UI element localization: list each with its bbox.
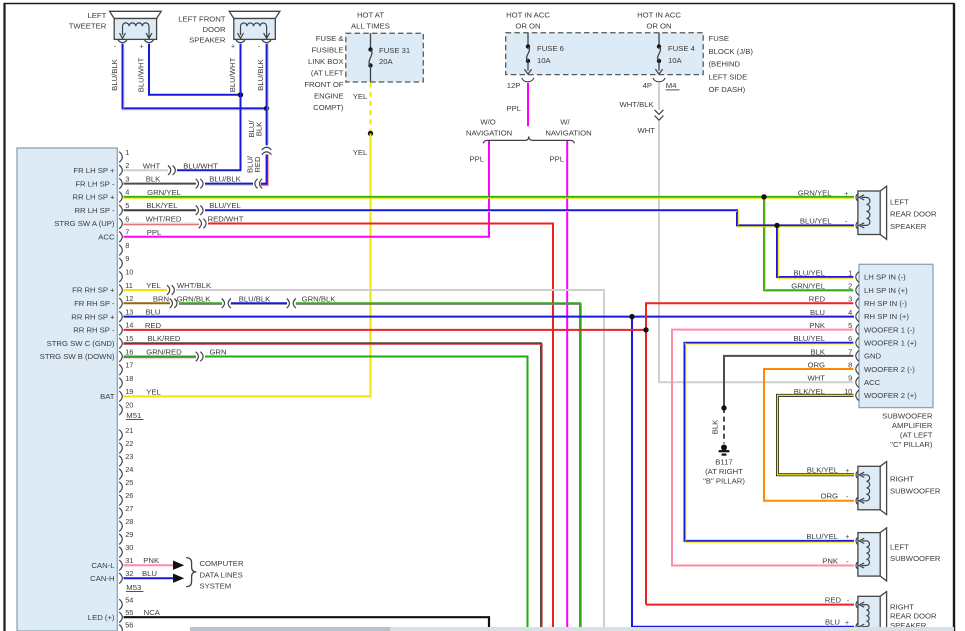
svg-text:RED/WHT: RED/WHT [208, 215, 244, 224]
svg-text:BLK: BLK [255, 121, 264, 136]
svg-text:+: + [231, 44, 235, 51]
splice pin 6 [199, 219, 206, 229]
splice pin 16 [196, 352, 203, 362]
svg-text:NAVIGATION: NAVIGATION [545, 128, 591, 137]
svg-text:12: 12 [125, 294, 133, 303]
speaker: LEFT FRONT DOOR SPEAKER [178, 11, 280, 50]
node junction BLU [629, 314, 634, 319]
svg-text:3: 3 [848, 295, 852, 304]
node junction GRN/YEL [761, 194, 766, 199]
svg-text:14: 14 [125, 321, 133, 330]
svg-text:(AT LEFT: (AT LEFT [900, 430, 933, 439]
svg-text:W/: W/ [560, 118, 570, 127]
svg-text:RH SP IN (+): RH SP IN (+) [864, 312, 909, 321]
svg-text:CAN-L: CAN-L [91, 561, 115, 570]
svg-text:SUBWOOFER: SUBWOOFER [890, 554, 941, 563]
svg-text:BLK: BLK [711, 419, 720, 434]
svg-text:GRN/YEL: GRN/YEL [147, 188, 181, 197]
svg-text:27: 27 [125, 504, 133, 513]
svg-text:SPEAKER: SPEAKER [189, 35, 226, 44]
svg-text:BLU/WHT: BLU/WHT [228, 57, 237, 92]
svg-text:LH SP IN (+): LH SP IN (+) [864, 286, 908, 295]
wire YEL from fuse 31 (fusible link, dashed) [353, 83, 371, 134]
svg-text:5: 5 [125, 201, 129, 210]
wire BRN radio pin 12 [124, 294, 171, 303]
svg-text:LED (+): LED (+) [88, 613, 115, 622]
svg-text:30: 30 [125, 543, 133, 552]
fuse F4: FUSE 4 10A [655, 33, 695, 74]
svg-text:LH SP IN (-): LH SP IN (-) [864, 273, 906, 282]
svg-text:BLU/YEL: BLU/YEL [793, 268, 825, 277]
svg-text:SPEAKER: SPEAKER [890, 222, 927, 231]
svg-text:15: 15 [125, 334, 133, 343]
svg-text:LEFT: LEFT [88, 11, 107, 20]
inline connector pin 12 a [222, 299, 231, 309]
svg-text:FUSE 4: FUSE 4 [668, 44, 696, 53]
svg-text:DOOR: DOOR [202, 25, 226, 34]
svg-text:10: 10 [125, 268, 133, 277]
svg-text:NAVIGATION: NAVIGATION [466, 128, 512, 137]
wire PPL w/o navigation to radio pin 7 ACC [124, 141, 490, 237]
splice pair pin 3 right [255, 179, 262, 189]
svg-text:BLU/BLK: BLU/BLK [209, 175, 241, 184]
connector 12P [507, 78, 534, 90]
wire PNK amp pin 5 to left subwoofer - [672, 330, 854, 566]
svg-text:LEFT SIDE: LEFT SIDE [709, 72, 748, 81]
wire YEL radio pin 11 [124, 281, 168, 290]
svg-text:32: 32 [125, 569, 133, 578]
svg-text:56: 56 [125, 621, 133, 630]
splice pin 2 [168, 166, 175, 176]
svg-text:TWEETER: TWEETER [69, 21, 107, 30]
svg-text:BLU/WHT: BLU/WHT [183, 162, 218, 171]
svg-text:BRN: BRN [153, 294, 169, 303]
wire BLK radio pin 3 [124, 175, 197, 184]
svg-text:GRN/RED: GRN/RED [146, 348, 182, 357]
svg-text:DATA LINES: DATA LINES [200, 570, 243, 579]
svg-text:11: 11 [125, 281, 133, 290]
wire WHT/RED radio pin 6 [124, 215, 200, 225]
svg-text:YEL: YEL [146, 281, 161, 290]
connector M51 pins 1-20 brackets and numbers [119, 148, 133, 415]
svg-text:+: + [844, 191, 848, 198]
speaker: LEFT REAR DOOR SPEAKER [856, 186, 937, 239]
svg-text:WOOFER 2 (+): WOOFER 2 (+) [864, 391, 917, 400]
svg-text:1: 1 [125, 148, 129, 157]
svg-text:GND: GND [864, 352, 882, 361]
svg-text:(AT LEFT: (AT LEFT [311, 69, 344, 78]
svg-text:PPL: PPL [147, 228, 162, 237]
svg-text:20: 20 [125, 401, 133, 410]
svg-text:+: + [845, 468, 849, 475]
svg-text:FUSE 6: FUSE 6 [537, 44, 564, 53]
svg-text:BLU/BLK: BLU/BLK [256, 58, 265, 90]
svg-text:WOOFER 2 (-): WOOFER 2 (-) [864, 365, 915, 374]
wire BLU/BLK door speaker negative [247, 44, 268, 146]
svg-text:PNK: PNK [143, 556, 160, 565]
svg-text:M51: M51 [126, 411, 141, 420]
svg-text:LINK BOX: LINK BOX [308, 57, 343, 66]
navigation option brace [466, 118, 592, 144]
svg-text:54: 54 [125, 595, 133, 604]
wire BLU/WHT door speaker positive to radio pin 2 [177, 44, 241, 171]
svg-text:YEL: YEL [146, 388, 161, 397]
svg-text:16: 16 [125, 347, 133, 356]
connector 4P M4 [643, 78, 680, 90]
svg-text:BLK/YEL: BLK/YEL [807, 466, 839, 475]
wire GRN/BLK segment [177, 294, 222, 304]
svg-text:23: 23 [125, 452, 133, 461]
connector M51 label [126, 411, 144, 420]
speaker: RIGHT REAR DOOR SPEAKER [856, 592, 937, 631]
svg-text:WOOFER 1 (+): WOOFER 1 (+) [864, 338, 917, 347]
svg-text:RR LH SP +: RR LH SP + [73, 193, 115, 202]
svg-text:FUSE: FUSE [709, 34, 730, 43]
svg-text:18: 18 [125, 374, 133, 383]
fuse F31: FUSE 31 20A [368, 33, 410, 82]
svg-text:WHT/RED: WHT/RED [146, 215, 182, 224]
svg-text:7: 7 [125, 228, 129, 237]
wire BLK/YEL radio pin 5 [124, 201, 197, 211]
svg-text:BLU/BLK: BLU/BLK [110, 58, 119, 90]
splice on vertical wire [262, 147, 272, 154]
svg-text:BAT: BAT [100, 392, 115, 401]
wire GRN/RED radio pin 16 [124, 348, 197, 358]
svg-text:HOT AT: HOT AT [357, 11, 384, 20]
svg-text:6: 6 [125, 214, 129, 223]
svg-text:24: 24 [125, 465, 133, 474]
right rear door speaker wire labels [825, 596, 850, 628]
svg-text:BLU: BLU [810, 308, 825, 317]
svg-text:25: 25 [125, 478, 133, 487]
svg-text:ACC: ACC [864, 378, 881, 387]
wire BLU/BLK left tweeter negative [110, 44, 267, 110]
svg-text:2: 2 [125, 161, 129, 170]
connector M53 label [126, 583, 144, 592]
svg-text:+: + [845, 534, 849, 541]
wire GRN (down off page) [205, 348, 528, 631]
wire NCA radio pin 55 LED(+) [124, 608, 490, 631]
svg-text:GRN: GRN [209, 348, 226, 357]
svg-text:RIGHT: RIGHT [890, 475, 914, 484]
svg-text:26: 26 [125, 491, 133, 500]
wire WHT to amplifier pin 9 ACC [637, 121, 853, 383]
svg-text:(AT RIGHT: (AT RIGHT [705, 467, 743, 476]
svg-text:BLK/YEL: BLK/YEL [146, 201, 178, 210]
wire GRN/YEL radio pin 4 to left rear door speaker + and amp pin 2 [124, 188, 855, 292]
fuse and fusible link box [304, 11, 423, 113]
svg-text:BLU/BLK: BLU/BLK [239, 294, 271, 303]
svg-text:RR LH SP -: RR LH SP - [74, 206, 114, 215]
svg-text:19: 19 [125, 387, 133, 396]
wire BLU/YEL to left rear door speaker - and amp pin 1 [205, 201, 854, 278]
svg-text:BLU: BLU [142, 569, 157, 578]
svg-text:3: 3 [125, 174, 129, 183]
svg-text:WOOFER 1 (-): WOOFER 1 (-) [864, 325, 915, 334]
node junction RED [643, 327, 648, 332]
svg-text:31: 31 [125, 556, 133, 565]
svg-text:29: 29 [125, 530, 133, 539]
svg-text:22: 22 [125, 439, 133, 448]
splice pin 12 [170, 299, 177, 309]
svg-text:10A: 10A [668, 56, 683, 65]
svg-text:4P: 4P [643, 81, 652, 90]
svg-text:PPL: PPL [469, 155, 484, 164]
svg-text:12P: 12P [507, 81, 521, 90]
inline connector pin 12 b [287, 299, 296, 309]
svg-text:4: 4 [848, 308, 852, 317]
ground G: B117 [703, 445, 745, 486]
svg-text:COMPUTER: COMPUTER [200, 559, 244, 568]
svg-text:LEFT FRONT: LEFT FRONT [178, 14, 226, 23]
svg-text:WHT: WHT [637, 126, 655, 135]
svg-text:REAR DOOR: REAR DOOR [890, 612, 937, 621]
svg-text:M4: M4 [666, 81, 677, 90]
svg-text:SYSTEM: SYSTEM [200, 581, 232, 590]
wire BLU/RED segment [246, 155, 268, 186]
subwoofer amplifier connector box [859, 264, 933, 449]
wire RED radio pin 14 to amp pin 3 and right rear door speaker - [124, 303, 855, 604]
radio connector pin name labels [40, 166, 115, 622]
speaker: LEFT SUBWOOFER [856, 528, 941, 581]
wire BLU/BLK pin 3 mid segment [205, 175, 253, 185]
fuse block (J/B) box [506, 11, 754, 95]
svg-text:CAN-H: CAN-H [90, 574, 114, 583]
node junction BLU/BLK [264, 106, 269, 111]
svg-text:HOT IN ACC: HOT IN ACC [506, 11, 550, 20]
svg-text:28: 28 [125, 517, 133, 526]
radio unit connector box (M51/M53) [17, 148, 117, 631]
computer data lines brace and label [186, 558, 244, 591]
svg-text:21: 21 [125, 426, 133, 435]
connector chevrons on WHT wire [655, 110, 664, 120]
svg-text:RED: RED [145, 321, 162, 330]
svg-text:SUBWOOFER: SUBWOOFER [882, 411, 933, 420]
svg-text:M53: M53 [126, 583, 141, 592]
svg-text:STRG SW A (UP): STRG SW A (UP) [54, 219, 115, 228]
wire BLU radio pin 13 to amp pin 4 and right rear door speaker + [124, 308, 855, 627]
wire RED/WHT (down off page) [208, 215, 553, 631]
wire BLU/WHT left tweeter positive [137, 44, 241, 95]
svg-text:BLU/YEL: BLU/YEL [800, 216, 832, 225]
svg-text:BLK: BLK [146, 175, 161, 184]
svg-text:LEFT: LEFT [890, 543, 909, 552]
splice pin 3 [196, 179, 203, 189]
svg-text:20A: 20A [379, 57, 394, 66]
svg-text:GRN/YEL: GRN/YEL [798, 189, 832, 198]
svg-text:OR ON: OR ON [646, 22, 671, 31]
svg-text:+: + [139, 44, 143, 51]
svg-text:1: 1 [848, 268, 852, 277]
svg-text:ENGINE: ENGINE [314, 92, 343, 101]
svg-text:FR LH SP +: FR LH SP + [73, 166, 115, 175]
svg-text:FUSE &: FUSE & [316, 34, 344, 43]
svg-text:STRG SW B (DOWN): STRG SW B (DOWN) [40, 352, 115, 361]
svg-text:BLU/YEL: BLU/YEL [209, 201, 241, 210]
svg-text:YEL: YEL [353, 148, 368, 157]
svg-text:BLU/YEL: BLU/YEL [806, 532, 838, 541]
svg-text:REAR DOOR: REAR DOOR [890, 210, 937, 219]
svg-text:FUSIBLE: FUSIBLE [311, 46, 343, 55]
svg-text:RR RH SP +: RR RH SP + [71, 312, 115, 321]
node junction BLK [721, 405, 726, 410]
svg-text:WHT: WHT [807, 374, 825, 383]
node junction BLU/YEL [774, 223, 779, 228]
wire ORG amp pin 8 to right subwoofer - [764, 369, 854, 501]
svg-text:RED: RED [809, 295, 826, 304]
svg-text:ALL TIMES: ALL TIMES [351, 22, 390, 31]
connector pins 54-56 brackets and numbers [119, 595, 133, 631]
svg-text:4: 4 [125, 188, 129, 197]
svg-text:FUSE 31: FUSE 31 [379, 46, 410, 55]
svg-text:BLOCK (J/B): BLOCK (J/B) [709, 47, 754, 56]
wire BLK/RED radio pin 15 (down off page) [124, 334, 543, 631]
speaker: RIGHT SUBWOOFER [856, 462, 941, 515]
wire WHT radio pin 2 [124, 162, 169, 171]
svg-text:COMPT): COMPT) [313, 103, 344, 112]
svg-text:ORG: ORG [820, 492, 838, 501]
splice pin 11 [167, 285, 174, 295]
svg-text:OR ON: OR ON [515, 22, 540, 31]
svg-text:LEFT: LEFT [890, 198, 909, 207]
wire BLK amp pin 7 GND [711, 356, 854, 444]
svg-text:55: 55 [125, 608, 133, 617]
wire PNK radio pin 31 CAN-L [124, 556, 185, 570]
svg-text:10A: 10A [537, 56, 552, 65]
svg-text:13: 13 [125, 307, 133, 316]
svg-text:YEL: YEL [353, 92, 368, 101]
svg-text:RR RH SP -: RR RH SP - [73, 326, 115, 335]
node junction BLU/WHT [238, 92, 243, 97]
svg-text:WHT: WHT [143, 162, 161, 171]
wire BLU/YEL amp pin 6 to left subwoofer + [685, 343, 855, 542]
svg-text:HOT IN ACC: HOT IN ACC [637, 11, 681, 20]
svg-text:PPL: PPL [506, 104, 521, 113]
fuse F6: FUSE 6 10A [524, 33, 564, 74]
wire BLU/BLK segment pin 12 [231, 294, 287, 304]
wire WHT/BLK from fuse 4 via 4P [620, 83, 659, 110]
svg-text:9: 9 [848, 374, 852, 383]
amplifier pin brackets, numbers and labels [791, 268, 917, 400]
svg-text:PPL: PPL [549, 155, 564, 164]
svg-text:GRN/BLK: GRN/BLK [302, 294, 337, 303]
svg-text:PNK: PNK [822, 556, 839, 565]
svg-text:"B" PILLAR): "B" PILLAR) [703, 476, 745, 485]
speaker: LEFT TWEETER [69, 11, 161, 51]
svg-text:BLU/WHT: BLU/WHT [137, 57, 146, 92]
svg-text:RED: RED [253, 156, 262, 173]
wire WHT/BLK (down off page) [176, 281, 604, 631]
svg-text:FR RH SP +: FR RH SP + [72, 286, 115, 295]
wire PPL from fuse 6 via 12P [506, 83, 528, 126]
svg-text:B117: B117 [715, 457, 732, 466]
svg-text:17: 17 [125, 361, 133, 370]
svg-text:BLU: BLU [825, 618, 840, 627]
wire BLU radio pin 32 CAN-H [124, 569, 185, 583]
svg-text:NCA: NCA [144, 608, 161, 617]
svg-text:(BEHIND: (BEHIND [709, 60, 741, 69]
wire BLK/YEL amp pin 10 to right subwoofer + [778, 395, 855, 475]
svg-text:8: 8 [125, 241, 129, 250]
svg-text:BLU: BLU [146, 308, 161, 317]
svg-text:GRN/BLK: GRN/BLK [177, 294, 212, 303]
svg-text:SUBWOOFER: SUBWOOFER [890, 487, 941, 496]
svg-text:ACC: ACC [98, 233, 115, 242]
wire PPL w/ navigation (down off page) [549, 141, 567, 631]
svg-text:FRONT OF: FRONT OF [304, 80, 343, 89]
svg-text:RED: RED [825, 596, 842, 605]
svg-text:GRN/YEL: GRN/YEL [791, 282, 825, 291]
svg-text:2: 2 [848, 282, 852, 291]
svg-text:OF DASH): OF DASH) [709, 85, 746, 94]
svg-text:"C" PILLAR): "C" PILLAR) [890, 440, 933, 449]
svg-text:RH SP IN (-): RH SP IN (-) [864, 299, 907, 308]
node splice on YEL wire [368, 131, 373, 136]
splice pin 5 [196, 205, 203, 215]
svg-text:BLK/RED: BLK/RED [148, 334, 181, 343]
svg-text:FR LH SP -: FR LH SP - [75, 179, 115, 188]
svg-text:FR RH SP -: FR RH SP - [74, 299, 115, 308]
wire YEL to radio pin 19 BAT [124, 134, 371, 397]
svg-text:9: 9 [125, 254, 129, 263]
svg-text:STRG SW C (GND): STRG SW C (GND) [47, 339, 115, 348]
svg-text:RIGHT: RIGHT [890, 602, 914, 611]
svg-text:WHT/BLK: WHT/BLK [620, 100, 655, 109]
svg-text:WHT/BLK: WHT/BLK [177, 281, 212, 290]
wire GRN/BLK (down off page) [296, 294, 582, 631]
connector M53 pins 21-32 brackets and numbers [119, 426, 133, 584]
svg-text:+: + [845, 620, 849, 627]
svg-text:W/O: W/O [480, 118, 495, 127]
svg-text:AMPLIFIER: AMPLIFIER [892, 421, 933, 430]
